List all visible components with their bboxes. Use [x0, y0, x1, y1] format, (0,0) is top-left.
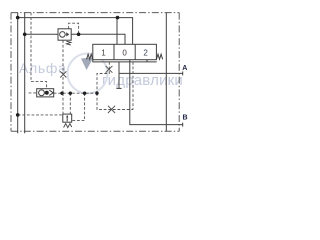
blocked line below valve	[118, 62, 120, 89]
port B tick	[182, 123, 184, 127]
pilot stub to CV2	[29, 92, 37, 94]
wire T riser	[24, 13, 26, 134]
pilot to relief valve left	[69, 93, 71, 114]
node P top	[16, 16, 20, 20]
drain line from top border	[31, 13, 47, 89]
X symbol X2	[108, 106, 115, 113]
node pilot row 4	[95, 92, 98, 95]
svg-text:Альфа: Альфа	[19, 60, 67, 76]
pilot drop right of relief	[72, 93, 85, 120]
svg-text:B: B	[183, 114, 188, 121]
node pilot row 1	[60, 92, 63, 95]
node P pilot lower	[16, 113, 20, 117]
pilot dashed lines	[18, 13, 133, 121]
check valve CV2	[37, 89, 54, 97]
pilot drop from wire3	[132, 62, 134, 110]
svg-text:0: 0	[122, 49, 127, 58]
valve spring right	[156, 54, 162, 59]
CV1 drain down through X	[62, 40, 64, 93]
watermark logo wedge	[81, 58, 94, 71]
blocked line end bar	[116, 87, 121, 89]
wire to port A	[119, 72, 183, 74]
port A tick	[182, 71, 184, 75]
watermark logo circle	[68, 54, 108, 94]
pilot row	[54, 92, 97, 94]
svg-text:1: 1	[101, 49, 106, 58]
CV1 pilot loop	[69, 23, 79, 34]
wire P drop to valve	[116, 18, 118, 45]
pilot P to relief valve	[18, 114, 63, 116]
relief valve top pilot	[62, 93, 64, 114]
CV1 spring	[66, 41, 71, 45]
node pilot row 2	[69, 92, 72, 95]
svg-text:гидравлики: гидравлики	[102, 72, 183, 89]
RV spring	[64, 124, 72, 128]
tick under valve pos2	[146, 60, 148, 62]
node P valve drop	[116, 16, 120, 20]
pilot down to X2 row	[97, 93, 133, 109]
wire right tank vertical	[165, 13, 167, 132]
X symbol X3	[60, 71, 66, 77]
svg-text:2: 2	[143, 49, 148, 58]
wire P riser	[17, 13, 19, 134]
node pilot row 3	[83, 92, 86, 95]
valve body	[93, 44, 157, 59]
X symbol X1	[106, 66, 113, 73]
pilot from X1 corner	[97, 62, 109, 93]
boundary box dash-dot	[11, 13, 179, 132]
valve spring left	[87, 54, 93, 59]
wire to port B	[130, 60, 183, 125]
blocked port bar in valve	[122, 47, 127, 49]
relief valve RV	[63, 114, 72, 122]
node second wire	[23, 33, 27, 37]
junction dots	[16, 16, 119, 117]
wire second line through check valve	[25, 34, 125, 47]
node CV1 outlet	[77, 33, 81, 37]
check valve CV1	[58, 29, 71, 40]
wire top P line	[18, 18, 133, 45]
wire below valve	[93, 60, 157, 62]
svg-text:A: A	[182, 65, 187, 72]
